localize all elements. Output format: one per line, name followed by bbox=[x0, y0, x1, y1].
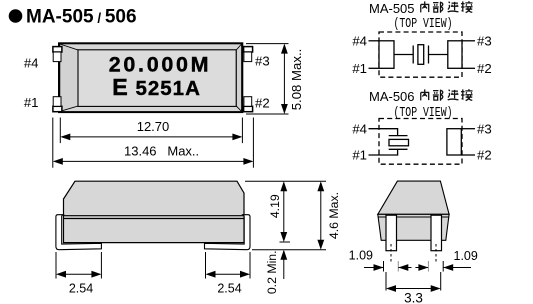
package bevel frame bbox=[60, 44, 78, 111]
svg-text:#4: #4 bbox=[24, 56, 39, 71]
title bullet bbox=[9, 9, 23, 23]
end seam line bbox=[378, 216, 449, 218]
MA-505 left electrode bbox=[379, 41, 394, 69]
end body base bbox=[378, 214, 449, 240]
dimension 0.2 Min leader bbox=[283, 251, 285, 279]
extension line top bbox=[245, 180, 326, 182]
dimension 2.54 right bbox=[206, 252, 251, 279]
leg centerline right bbox=[435, 244, 437, 263]
dimension 2.54 left bbox=[56, 252, 101, 279]
svg-text:#2: #2 bbox=[477, 148, 492, 163]
pin #3 pad bbox=[244, 47, 253, 62]
svg-text:#4: #4 bbox=[352, 121, 367, 136]
svg-text:3.3: 3.3 bbox=[404, 291, 423, 304]
svg-text:(TOP VIEW): (TOP VIEW) bbox=[394, 17, 453, 32]
svg-text:#3: #3 bbox=[477, 34, 492, 49]
svg-text:4.6 Max.: 4.6 Max. bbox=[327, 192, 341, 239]
svg-text:#1: #1 bbox=[24, 95, 39, 110]
svg-text:12.70: 12.70 bbox=[137, 119, 170, 134]
svg-text:MA-505 / 506: MA-505 / 506 bbox=[26, 7, 137, 28]
MA-505 right electrode bbox=[448, 41, 462, 69]
pin #2 pad bbox=[244, 97, 253, 112]
extension line base bottom bbox=[280, 241, 291, 243]
svg-text:#3: #3 bbox=[255, 53, 270, 68]
package inner face bbox=[78, 50, 236, 107]
svg-text:#2: #2 bbox=[477, 61, 492, 76]
MA-505 lead stub #4 bbox=[369, 40, 380, 42]
svg-text:1.09: 1.09 bbox=[454, 249, 478, 263]
seam line upper bbox=[64, 215, 245, 217]
svg-text:2.54: 2.54 bbox=[69, 282, 93, 296]
MA-506 right electrode bbox=[447, 129, 461, 155]
MA-506 crystal X1 bbox=[389, 136, 409, 150]
left lead bbox=[56, 215, 102, 250]
MA-506 wire to #1 bbox=[369, 149, 398, 155]
svg-text:#3: #3 bbox=[477, 121, 492, 136]
dimension 4.6 Max bbox=[320, 183, 322, 248]
svg-text:0.2 Min.: 0.2 Min. bbox=[265, 250, 279, 294]
package outer body bbox=[59, 43, 242, 112]
MA-505 lead stub #1 bbox=[369, 67, 380, 69]
leg centerline left bbox=[390, 244, 392, 263]
svg-text:#4: #4 bbox=[352, 34, 367, 49]
seam line lower bbox=[64, 218, 245, 220]
MA-505 lead stub #2 bbox=[462, 67, 475, 69]
dimension 3.3 bbox=[386, 272, 441, 291]
pin #4 pad bbox=[53, 47, 62, 62]
dimension 4.19 bbox=[283, 183, 285, 240]
svg-text:1.09: 1.09 bbox=[349, 249, 373, 263]
end leg right bbox=[431, 215, 442, 251]
extension line lead bottom bbox=[252, 249, 326, 251]
pin #1 pad bbox=[53, 97, 62, 112]
dimension 13.46 Max.. bbox=[53, 118, 254, 168]
svg-text:E 5251A: E 5251A bbox=[112, 74, 201, 100]
svg-text:MA-506: MA-506 bbox=[369, 89, 415, 104]
MA-506 lead stub #3 bbox=[461, 128, 475, 130]
end body top bbox=[378, 181, 449, 214]
MA-505 dashed outline bbox=[379, 32, 462, 77]
end leg left bbox=[386, 215, 397, 251]
MA-506 dashed outline bbox=[379, 119, 462, 165]
dimension 5.08 Max.. bbox=[246, 44, 289, 114]
svg-text:MA-505: MA-505 bbox=[369, 1, 415, 16]
svg-text:2.54: 2.54 bbox=[217, 282, 241, 296]
svg-text:5.08 Max..: 5.08 Max.. bbox=[289, 49, 304, 111]
svg-text:4.19: 4.19 bbox=[268, 194, 282, 218]
svg-text:#1: #1 bbox=[352, 148, 367, 163]
dimension 12.70 bbox=[60, 118, 242, 144]
MA-506 wire from #4 bbox=[369, 129, 398, 136]
MA-505 lead stub #3 bbox=[462, 40, 475, 42]
right lead bbox=[205, 215, 251, 250]
svg-text:13.46 Max..: 13.46 Max.. bbox=[124, 144, 199, 159]
svg-text:#2: #2 bbox=[255, 96, 270, 111]
svg-text:20.000M: 20.000M bbox=[109, 52, 212, 76]
MA-506 lead stub #2 bbox=[461, 154, 475, 156]
svg-text:#1: #1 bbox=[352, 61, 367, 76]
side body bbox=[64, 181, 245, 242]
MA-505 crystal X1 bbox=[394, 45, 448, 65]
